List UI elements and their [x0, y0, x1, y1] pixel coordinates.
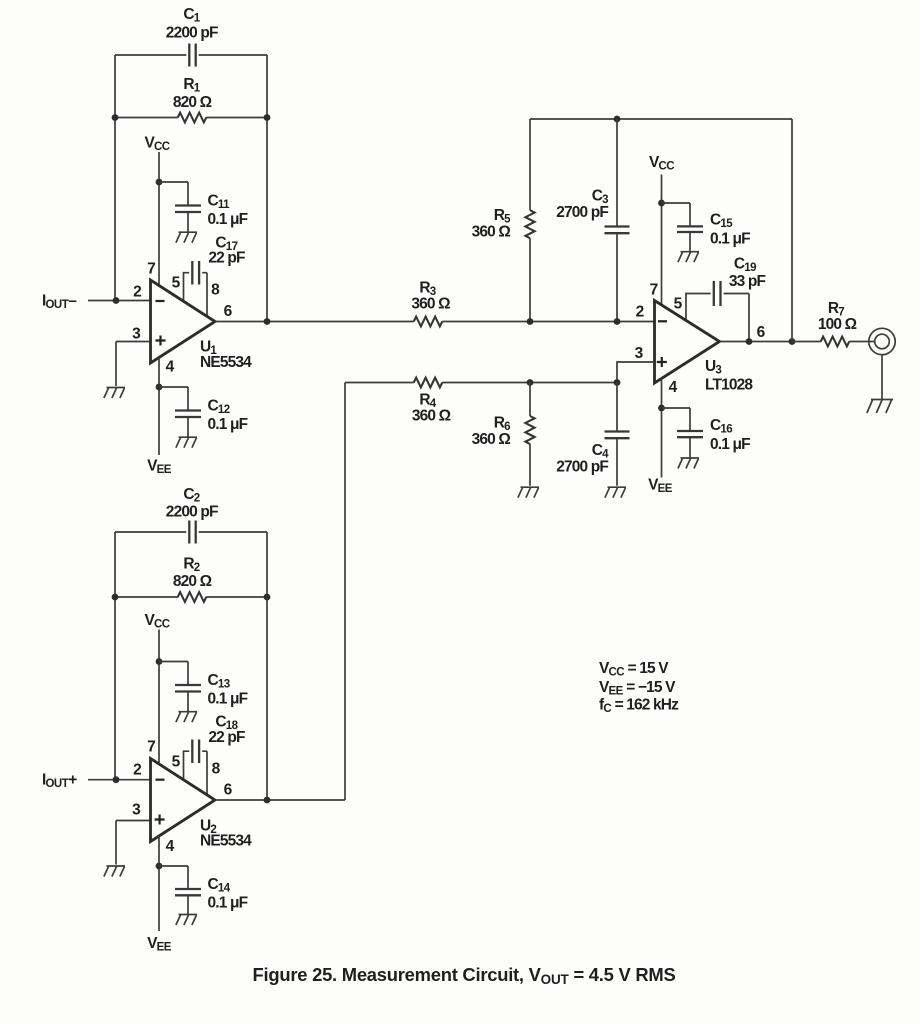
- svg-text:0.1 μF: 0.1 μF: [208, 211, 248, 228]
- svg-text:6: 6: [224, 303, 233, 320]
- svg-text:360 Ω: 360 Ω: [472, 431, 511, 448]
- svg-text:2700 pF: 2700 pF: [556, 459, 608, 476]
- svg-text:5: 5: [172, 753, 181, 770]
- svg-text:VEE: VEE: [147, 458, 172, 477]
- svg-text:8: 8: [211, 281, 220, 298]
- svg-text:C11: C11: [208, 192, 231, 211]
- svg-text:VCC: VCC: [144, 612, 169, 631]
- svg-text:3: 3: [132, 802, 141, 819]
- svg-text:R2: R2: [183, 556, 199, 575]
- svg-text:820 Ω: 820 Ω: [173, 573, 212, 590]
- svg-text:VEE: VEE: [648, 477, 673, 496]
- svg-text:VEE: VEE: [147, 935, 172, 954]
- svg-text:7: 7: [147, 260, 155, 277]
- svg-text:3: 3: [132, 325, 141, 342]
- svg-text:820 Ω: 820 Ω: [173, 94, 212, 111]
- svg-text:22 pF: 22 pF: [208, 250, 245, 267]
- svg-text:360 Ω: 360 Ω: [472, 224, 511, 241]
- svg-text:C2: C2: [183, 486, 199, 505]
- svg-text:LT1028: LT1028: [705, 377, 753, 394]
- svg-text:0.1 μF: 0.1 μF: [710, 436, 750, 453]
- svg-text:7: 7: [650, 281, 658, 298]
- svg-text:C14: C14: [208, 876, 231, 895]
- svg-text:2: 2: [133, 283, 141, 300]
- svg-text:VCC = 15 V: VCC = 15 V: [599, 660, 669, 679]
- svg-text:2: 2: [133, 761, 141, 778]
- svg-text:6: 6: [757, 324, 766, 341]
- svg-text:360 Ω: 360 Ω: [411, 296, 450, 313]
- svg-text:VEE = −15 V: VEE = −15 V: [599, 679, 676, 698]
- svg-text:C19: C19: [734, 256, 756, 275]
- svg-text:2200 pF: 2200 pF: [166, 24, 218, 41]
- svg-text:3: 3: [635, 345, 644, 362]
- svg-text:360 Ω: 360 Ω: [412, 408, 451, 425]
- svg-text:fC = 162 kHz: fC = 162 kHz: [599, 697, 679, 716]
- svg-text:C12: C12: [208, 397, 230, 416]
- svg-text:C13: C13: [208, 672, 230, 691]
- svg-text:6: 6: [224, 782, 233, 799]
- svg-text:2: 2: [636, 303, 644, 320]
- svg-text:C16: C16: [710, 417, 732, 436]
- svg-text:C15: C15: [710, 212, 733, 231]
- svg-text:Figure 25. Measurement Circuit: Figure 25. Measurement Circuit, VOUT = 4…: [253, 964, 676, 987]
- svg-text:NE5534: NE5534: [200, 832, 252, 849]
- svg-text:2700 pF: 2700 pF: [556, 204, 608, 221]
- svg-text:0.1 μF: 0.1 μF: [208, 416, 248, 433]
- svg-text:VCC: VCC: [649, 154, 674, 173]
- svg-text:5: 5: [172, 274, 181, 291]
- svg-text:33 pF: 33 pF: [729, 273, 766, 290]
- svg-text:IOUT–: IOUT–: [42, 293, 77, 312]
- svg-text:U3: U3: [705, 358, 721, 377]
- svg-text:NE5534: NE5534: [200, 354, 252, 371]
- svg-text:0.1 μF: 0.1 μF: [208, 895, 248, 912]
- svg-text:4: 4: [669, 379, 678, 396]
- svg-text:22 pF: 22 pF: [208, 729, 245, 746]
- svg-text:0.1 μF: 0.1 μF: [208, 691, 248, 708]
- svg-text:VCC: VCC: [144, 135, 169, 154]
- svg-text:100 Ω: 100 Ω: [818, 316, 857, 333]
- svg-text:8: 8: [212, 760, 221, 777]
- svg-text:4: 4: [166, 358, 175, 375]
- svg-text:4: 4: [166, 838, 175, 855]
- svg-text:7: 7: [147, 739, 155, 756]
- svg-text:0.1 μF: 0.1 μF: [710, 231, 750, 248]
- svg-text:2200 pF: 2200 pF: [166, 504, 218, 521]
- svg-text:5: 5: [674, 296, 683, 313]
- svg-text:IOUT+: IOUT+: [42, 772, 77, 791]
- svg-text:R1: R1: [183, 76, 200, 95]
- svg-text:C1: C1: [183, 6, 200, 25]
